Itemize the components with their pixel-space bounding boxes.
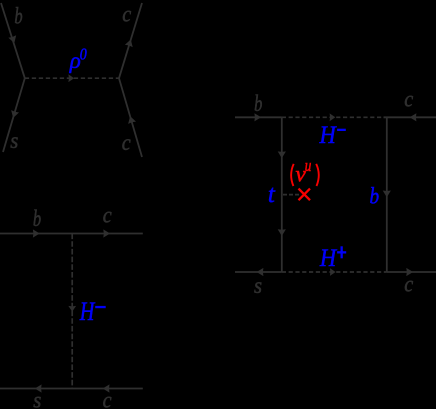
label c xyxy=(404,87,413,112)
arrow s segment (left) xyxy=(35,384,42,392)
svg-text:b: b xyxy=(369,183,379,209)
arrow on bottom H+ propagator xyxy=(330,268,336,276)
arrow bottom-right xyxy=(406,268,413,276)
svg-text:H: H xyxy=(79,298,96,327)
label c xyxy=(103,203,112,228)
svg-text:s: s xyxy=(254,273,262,298)
arrow on rho0 propagator xyxy=(68,74,74,82)
svg-text:t: t xyxy=(268,181,276,208)
wire: bottom-left s quark segment (arrow left) xyxy=(235,271,282,273)
svg-text:H: H xyxy=(319,245,338,272)
arrow top-left xyxy=(254,113,261,121)
arrow right vertical xyxy=(383,191,391,198)
label c (top) xyxy=(122,1,131,26)
label H+ (blue) xyxy=(319,245,346,272)
label c xyxy=(404,271,413,296)
propagator H+ bottom (dashed) xyxy=(282,271,387,273)
wire: left vertical t quark line xyxy=(281,117,283,272)
svg-text:0: 0 xyxy=(80,46,87,64)
svg-text:b: b xyxy=(33,206,41,231)
svg-text:c: c xyxy=(103,203,112,228)
svg-text:s: s xyxy=(10,128,18,153)
wire: right vertical b quark line xyxy=(386,117,388,272)
arrow c segment (left) xyxy=(103,384,110,392)
svg-text:b: b xyxy=(14,4,22,29)
svg-text:c: c xyxy=(103,387,112,409)
arrow left vertical lower xyxy=(278,229,286,236)
label s xyxy=(254,273,262,298)
wire: bottom-right c quark segment (arrow right) xyxy=(387,271,436,273)
label c xyxy=(103,387,112,409)
propagator H- top (dashed) xyxy=(282,116,385,118)
wire: outgoing s quark line xyxy=(3,78,25,152)
label H- (blue) xyxy=(319,122,346,149)
mass insertion stub (short dashed) xyxy=(283,194,300,196)
svg-text:H: H xyxy=(319,122,338,149)
label rho0 (blue) xyxy=(69,46,87,73)
arrow on c top line xyxy=(125,38,135,47)
arrow c segment xyxy=(103,229,110,237)
wire: outgoing c quark line (top) xyxy=(119,3,142,78)
svg-text:c: c xyxy=(404,87,413,112)
arrow bottom-left (left-pointing) xyxy=(257,268,264,276)
propagator H- (vertical dashed) xyxy=(71,234,73,389)
label b (quark) xyxy=(14,4,22,29)
svg-text:c: c xyxy=(122,1,131,26)
wire: top fermion line b -> c xyxy=(0,233,143,235)
svg-text:c: c xyxy=(404,271,413,296)
svg-text:c: c xyxy=(122,130,131,155)
mass insertion cross (red X) xyxy=(299,189,311,201)
arrow on b line xyxy=(8,35,18,44)
svg-text:s: s xyxy=(33,388,41,409)
arrow left vertical upper xyxy=(278,151,286,158)
label c (bottom) xyxy=(122,130,131,155)
label b xyxy=(33,206,41,231)
arrow on cbar line (points toward vertex) xyxy=(126,115,136,124)
label b xyxy=(254,91,262,116)
label s xyxy=(33,388,41,409)
svg-text:u: u xyxy=(305,158,312,176)
arrow on s line xyxy=(9,110,19,119)
arrow top-right (left-pointing) xyxy=(410,113,417,121)
label (v^u) red vev insertion xyxy=(291,158,319,187)
label H- (blue) xyxy=(79,298,106,327)
wire: bottom fermion line s <- c xyxy=(0,388,143,390)
arrow on H- propagator xyxy=(68,306,76,312)
arrow on top H- propagator xyxy=(330,113,336,121)
wire: top-left b quark segment xyxy=(235,116,282,118)
wire: incoming cbar quark line (bottom) xyxy=(119,78,142,157)
label b (blue) xyxy=(369,183,379,209)
propagator rho0 (dashed) xyxy=(25,77,119,79)
arrow b segment xyxy=(33,229,40,237)
wire: top-right c quark segment (arrow pointing left) xyxy=(384,116,436,118)
label s (quark) xyxy=(10,128,18,153)
svg-text:b: b xyxy=(254,91,262,116)
wire: incoming b quark line xyxy=(1,3,25,78)
